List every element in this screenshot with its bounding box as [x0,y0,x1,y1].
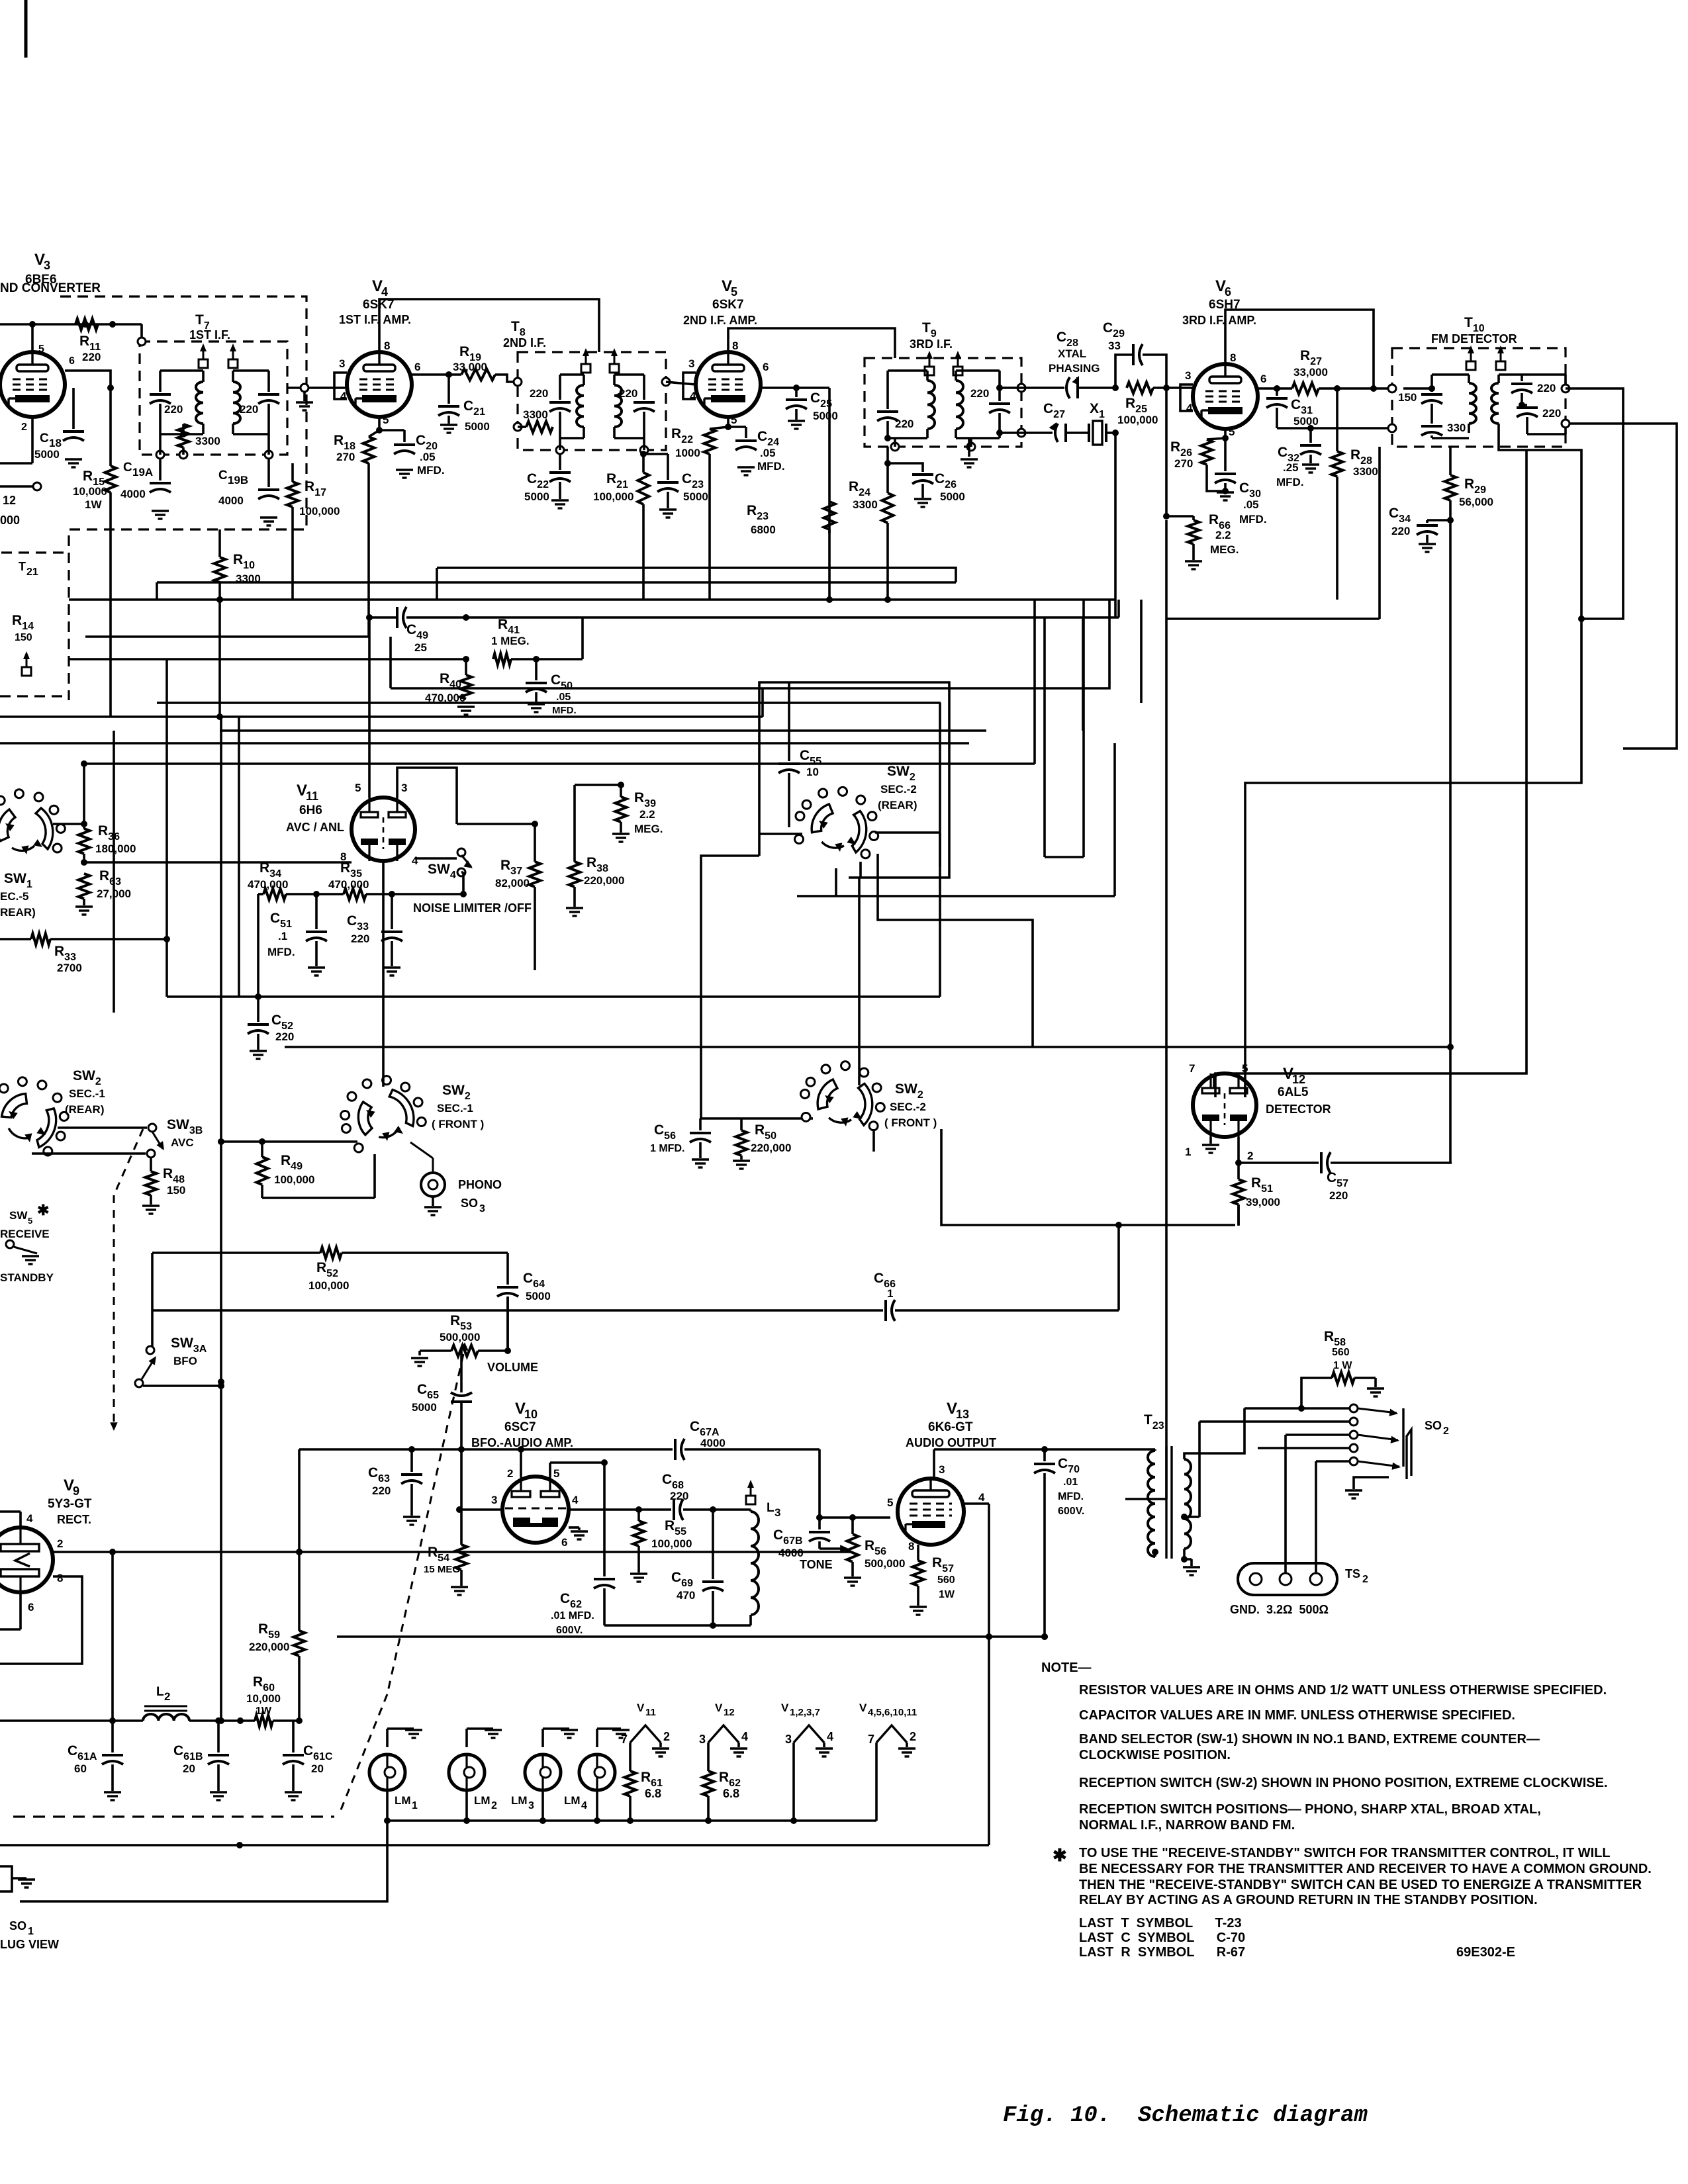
svg-text:3: 3 [528,1800,534,1811]
capacitor C70 [1034,1446,1084,1640]
resistor R39 [616,785,663,835]
label R14 [12,613,34,643]
wire dashed SW3 link [110,1129,143,1431]
svg-text:RECT.: RECT. [57,1513,91,1526]
svg-text:220: 220 [1329,1189,1348,1202]
svg-text:1: 1 [887,1287,893,1300]
terminal T10 left-bot [1388,424,1396,432]
svg-text:25: 25 [414,641,427,654]
resistor R38 [569,785,625,907]
capacitor C68 [662,1472,751,1520]
svg-text:1: 1 [412,1800,418,1811]
capacitor C22 [524,454,571,503]
svg-text:5000: 5000 [1293,415,1319,428]
ground C63 [403,1517,420,1525]
resistor R56 tone pot [847,1514,906,1576]
svg-text:RECEPTION SWITCH (SW-2) SHOWN: RECEPTION SWITCH (SW-2) SHOWN IN PHONO P… [1079,1776,1608,1790]
capacitor T9 primary [877,371,914,438]
svg-text:SEC.-1: SEC.-1 [437,1102,473,1115]
svg-text:5000: 5000 [683,490,708,503]
wire v x579 V11 [382,861,385,1087]
svg-text:3: 3 [401,782,407,794]
svg-text:7: 7 [868,1733,874,1746]
wire v x170 [109,1552,116,1724]
svg-text:330: 330 [1447,422,1466,434]
transformer T7 dashed box [140,312,287,455]
wire V11 plate3 up [397,768,457,824]
svg-text:4: 4 [581,1800,587,1811]
svg-text:100,000: 100,000 [593,490,633,503]
svg-text:C: C [218,469,228,482]
resistor R24 [849,447,894,600]
svg-text:10,000: 10,000 [73,485,107,498]
coil T8 primary [560,375,584,438]
wire bus y2473 [337,1633,1048,1640]
svg-text:39,000: 39,000 [1246,1196,1280,1208]
resistor R23 [747,502,835,600]
svg-text:SW: SW [9,1209,28,1222]
svg-text:5000: 5000 [940,490,965,503]
svg-text:TO USE THE "RECEIVE-STANDBY" S: TO USE THE "RECEIVE-STANDBY" SWITCH FOR … [1079,1846,1611,1860]
svg-text:6SC7: 6SC7 [504,1420,536,1434]
svg-text:9: 9 [73,1484,79,1498]
resistor R15 [73,388,117,529]
coil T7 secondary [233,371,269,434]
dashed box T21 fragment [0,553,64,696]
svg-text:220: 220 [240,403,258,416]
resistor T8 3300 [523,408,553,433]
svg-text:20: 20 [183,1762,195,1775]
svg-text:4: 4 [741,1730,748,1743]
node xtal top [1112,385,1170,391]
svg-text:.05: .05 [1243,498,1259,511]
wire harness h10 [220,729,986,732]
wire harness h2 [157,582,956,600]
wire V12 pin2 out [1235,1137,1319,1166]
svg-text:✱: ✱ [1053,1845,1067,1865]
wire h y1354 [797,743,1115,896]
svg-text:NORMAL I.F., NARROW BAND FM.: NORMAL I.F., NARROW BAND FM. [1079,1818,1295,1833]
inductor L3 [746,1480,780,1625]
svg-text:8: 8 [57,1572,63,1584]
svg-text:DETECTOR: DETECTOR [1266,1103,1331,1116]
svg-text:4: 4 [1186,402,1193,414]
capacitor T9 secondary [970,371,1010,438]
switch SW3A BFO [135,1336,207,1387]
capacitor T10 220b [1517,402,1561,429]
wire dashed chassis [13,1815,334,1817]
ground C61C [285,1792,302,1800]
svg-text:1ST I.F. AMP.: 1ST I.F. AMP. [339,313,411,326]
svg-text:5: 5 [731,285,737,298]
ground C25 [788,421,805,429]
wire C67B to pot [820,1545,849,1552]
wire v x361 [238,717,240,997]
capacitor C29 33 [1103,320,1166,388]
rotary switch SW2 SEC-1 front [329,1064,485,1156]
wire TS2 lead left [0,0,1,1]
terminal T9 right-top [996,384,1025,392]
capacitor T10 330 [1421,422,1469,438]
svg-text:FM DETECTOR: FM DETECTOR [1431,332,1517,345]
ground R66 [1185,561,1202,569]
svg-text:220: 220 [1391,525,1410,537]
capacitor C32 [1276,428,1321,488]
wire box right edge [988,1637,990,1845]
resistor R55 [633,1510,692,1572]
svg-text:LAST T SYMBOL T-23: LAST T SYMBOL T-23 [1079,1916,1242,1931]
svg-text:220: 220 [275,1030,294,1043]
svg-text:180,000: 180,000 [95,842,136,855]
wire V9 pin8 box [0,1576,82,1664]
svg-text:7: 7 [621,1733,628,1746]
terminal T10 left-top [1388,385,1396,392]
svg-text:470,000: 470,000 [328,878,369,891]
svg-text:3RD I.F. AMP.: 3RD I.F. AMP. [1182,314,1256,327]
svg-text:4: 4 [412,854,418,867]
wire bus into T7 [140,324,143,341]
resistor R62 [703,1743,741,1824]
capacitor T8 secondary [619,375,655,438]
svg-text:EC.-5: EC.-5 [0,890,28,903]
wire V13 pin4 out [964,1504,992,1640]
ground C34 [1419,544,1436,552]
resistor R17 [287,463,340,529]
svg-text:33,000: 33,000 [453,361,487,373]
wire harness h1 [437,568,956,582]
svg-text:RELAY BY ACTING AS A GROUND RE: RELAY BY ACTING AS A GROUND RETURN IN TH… [1079,1893,1538,1907]
wire v x172 [113,731,115,1013]
ground C22 [551,500,569,508]
svg-text:MFD.: MFD. [417,464,445,477]
svg-text:220: 220 [895,418,914,430]
svg-text:6.8: 6.8 [723,1787,739,1800]
wire L3 bottom loop [604,1622,751,1629]
svg-text:V: V [715,1702,723,1714]
svg-text:2.2: 2.2 [639,808,655,821]
svg-text:12: 12 [3,494,16,507]
svg-text:5: 5 [38,343,44,355]
svg-text:NOTE—: NOTE— [1041,1661,1092,1675]
capacitor C24 [725,424,785,473]
label TONE [800,1558,833,1571]
svg-text:5000: 5000 [813,410,838,422]
ground C61A [104,1792,121,1800]
svg-text:4: 4 [827,1730,833,1743]
ground C32 [1302,465,1319,473]
wire V4 plate to T8 [379,299,599,352]
wire V10 plate2 [518,1446,524,1477]
svg-text:5000: 5000 [34,448,60,461]
wire v x1685 [1114,600,1117,617]
wire volume dashed link [339,1354,463,1815]
terminal T8 left-bot [514,423,526,431]
wire V6 plate [1225,310,1374,388]
svg-text:220: 220 [351,933,369,945]
resistor R49 [257,1138,315,1198]
resistor R59 [249,1549,305,1724]
terminal strip TS2 [1230,1563,1368,1616]
ground C50 [528,704,545,712]
wire h y1295 [1045,600,1084,857]
ground R39 [612,834,630,842]
svg-text:5: 5 [1229,426,1235,438]
svg-text:5: 5 [731,414,737,426]
svg-text:CLOCKWISE POSITION.: CLOCKWISE POSITION. [1079,1748,1231,1762]
registration mark [24,0,28,58]
capacitor T10 150 [1398,388,1442,424]
wire C66 line [152,1222,1122,1321]
wire R52 left drop [151,1253,154,1348]
svg-text:MFD.: MFD. [1239,513,1267,525]
svg-text:MFD.: MFD. [552,705,577,716]
terminal T7 top [138,338,146,345]
svg-text:150: 150 [15,632,32,643]
heater V4561011 [859,1702,917,1821]
svg-text:CAPACITOR VALUES ARE IN MMF. U: CAPACITOR VALUES ARE IN MMF. UNLESS OTHE… [1079,1708,1515,1723]
capacitor C28 xtal phasing [1021,330,1115,398]
svg-text:C: C [123,461,132,475]
terminal T8 bot-left [556,438,564,454]
terminal T8 left-top [514,378,522,386]
svg-text:TONE: TONE [800,1558,833,1571]
svg-text:SEC.-1: SEC.-1 [69,1087,105,1100]
switch SW3B AVC [152,1117,203,1150]
wire V6 pin6 out [1258,387,1292,390]
svg-text:3: 3 [339,357,345,370]
svg-text:4: 4 [690,390,696,402]
svg-text:150: 150 [1398,391,1417,404]
svg-text:10: 10 [524,1408,538,1421]
svg-text:SO: SO [1425,1419,1442,1432]
resistor R41 [491,617,583,665]
svg-text:5: 5 [887,1496,893,1509]
svg-text:6800: 6800 [751,523,776,536]
slug T7 primary [199,343,208,368]
svg-text:PHASING: PHASING [1049,362,1100,375]
wire V5 pin6 out [761,385,829,391]
resistor R57 [913,1545,955,1606]
svg-text:100,000: 100,000 [308,1279,349,1292]
connector SO1 stub [0,1866,35,1891]
wire V5 screen drop [828,388,831,533]
wire sw2r row2 [32,1150,155,1158]
wire v x334 power [218,1637,224,1724]
resistor R58 [1301,1373,1384,1409]
svg-text:BE NECESSARY FOR THE TRANSMITT: BE NECESSARY FOR THE TRANSMITTER AND REC… [1079,1862,1652,1876]
svg-text:220: 220 [164,403,183,416]
svg-text:470: 470 [677,1589,695,1602]
svg-text:20: 20 [311,1762,324,1775]
wire T23 sec top [1184,1408,1244,1459]
svg-text:3RD I.F.: 3RD I.F. [910,338,953,351]
svg-text:560: 560 [937,1574,955,1586]
jack PHONO SO3 [410,1142,445,1197]
svg-text:1: 1 [28,1926,34,1937]
svg-text:5: 5 [1242,1062,1248,1075]
svg-text:MEG.: MEG. [1210,543,1239,556]
svg-text:REAR): REAR) [0,906,36,919]
capacitor C18 [34,388,84,461]
crystal X1 [1082,401,1115,445]
svg-text:3: 3 [688,357,694,370]
svg-text:8: 8 [908,1540,914,1553]
resistor R35 [286,860,467,900]
resistor R26 [1170,429,1229,491]
svg-text:6: 6 [414,361,420,373]
svg-text:220: 220 [82,351,101,363]
capacitor C55 [778,682,821,802]
svg-text:LM: LM [395,1794,411,1807]
svg-text:.01: .01 [1063,1477,1078,1488]
svg-text:5: 5 [28,1216,32,1226]
resistor R25 [1117,383,1193,427]
capacitor C33 [347,894,402,966]
wire T10 primary btm drop [1166,447,1380,619]
svg-text:4,5,6,10,11: 4,5,6,10,11 [868,1707,917,1718]
wire T10 sec tap down [1499,434,1585,622]
capacitor C50 [526,659,577,716]
ground R48 [142,1206,160,1214]
coil T9 secondary [956,371,1000,438]
ground R40 [457,707,475,715]
label SO1 [0,1919,59,1951]
svg-text:V: V [637,1702,645,1714]
wire v x2389-1183 [1245,619,1581,1097]
resistor R48 [146,1158,186,1205]
svg-text:5: 5 [383,414,389,426]
wire B+ top loop [0,0,1,1]
ground C51 [308,968,325,976]
resistor R53 volume pot [411,1313,538,1374]
wire V13 plate3 [934,1449,1155,1479]
capacitor C61A [68,1721,123,1791]
svg-text:C: C [40,432,49,445]
svg-text:SEC.-2: SEC.-2 [890,1101,926,1113]
wire SW4 feed [457,823,535,825]
svg-text:Fig. 10. Schematic diagram: Fig. 10. Schematic diagram [1003,2103,1368,2128]
svg-text:VOLUME: VOLUME [487,1361,538,1374]
svg-text:220,000: 220,000 [584,874,624,887]
svg-text:STANDBY: STANDBY [0,1271,54,1284]
svg-text:1000: 1000 [675,447,700,459]
svg-text:5000: 5000 [412,1401,437,1414]
svg-text:220: 220 [670,1490,688,1502]
rotary switch SW2 SEC-1 rear [0,1062,105,1161]
svg-text:LM: LM [474,1794,491,1807]
switch SW4 [415,848,473,881]
capacitor T8 primary [530,375,571,438]
svg-text:6: 6 [69,355,75,367]
terminal T7 bottom-mid [179,447,187,459]
ground R55 [630,1574,647,1582]
svg-text:L: L [156,1685,164,1699]
wire v x252 [165,659,168,997]
wire L3 tap [0,0,1,1]
wire V9 plate4 top [0,1512,21,1527]
wire V10 grid row [456,1506,502,1513]
capacitor C69 [671,1510,724,1625]
slug T8 primary [581,348,590,373]
label PHONO SO3 [458,1178,502,1214]
svg-text:3300: 3300 [853,498,878,511]
svg-text:3: 3 [774,1506,780,1519]
wire SW2 sec2 wiring [701,854,1033,1118]
label C67A value [700,1437,726,1449]
label R52 [308,1260,349,1292]
svg-text:10: 10 [806,766,819,778]
svg-text:5000: 5000 [524,490,549,503]
slug T10 primary [1466,345,1476,370]
wire SW2f2 enclosure [941,1129,1235,1225]
terminal T8 right-top [662,378,670,386]
ground R56 [844,1578,861,1586]
svg-text:2: 2 [663,1730,670,1743]
coil T8 secondary [614,375,644,438]
wire R51 bottom [1237,1205,1240,1225]
wire B+ riser x452 [298,1449,301,1552]
wire SO2 ground [1345,1477,1389,1498]
svg-text:2: 2 [164,1690,170,1703]
svg-text:3: 3 [44,259,50,272]
svg-text:220: 220 [619,387,637,400]
wire power bus y2788 [0,1842,989,1848]
inductor L2 [0,1714,220,1721]
svg-text:1 MFD.: 1 MFD. [650,1143,684,1154]
svg-text:5000: 5000 [465,420,490,433]
wire T23 sec tap [1181,1422,1199,1520]
svg-text:27,000: 27,000 [97,887,131,900]
svg-text:T: T [19,560,26,573]
label R58 [1324,1329,1352,1371]
resistor R50 [736,1118,792,1160]
resistor R40 [425,659,472,704]
transformer T8 dashed box [503,319,666,450]
wire v x332 mid [218,600,221,717]
resistor T7 3300 [178,424,220,447]
coil T7 primary [160,371,203,434]
label noise limiter [413,901,532,915]
rotary switch SW1 SEC-5 [0,790,65,919]
wire C31 to T10 [1277,425,1392,432]
svg-text:60: 60 [74,1762,87,1775]
svg-text:2ND I.F.: 2ND I.F. [503,336,546,349]
svg-text:2ND I.F. AMP.: 2ND I.F. AMP. [683,314,757,327]
resistor R34 [248,860,288,900]
wire V3 plate to B+ bus [29,321,36,352]
svg-text:6AL5: 6AL5 [1278,1085,1309,1099]
ground C23 [659,510,677,518]
wire y2190 bus [299,1446,673,1453]
svg-text:LAST R SYMBOL R-67: LAST R SYMBOL R-67 [1079,1945,1245,1960]
resistor R10 [214,529,261,603]
label T21 [19,560,38,578]
resistor R60 body [220,1715,299,1727]
svg-text:MFD.: MFD. [1276,476,1304,488]
svg-text:4: 4 [26,1512,33,1525]
wire harness h8 [157,702,941,704]
tube V13 6K6-GT [887,1400,996,1553]
ground C18 [65,459,82,467]
svg-text:1: 1 [1185,1146,1191,1158]
svg-text:THEN THE "RECEIVE-STANDBY" SWI: THEN THE "RECEIVE-STANDBY" SWITCH CAN BE… [1079,1878,1642,1892]
svg-text:220: 220 [530,387,548,400]
ground C20 [396,470,413,478]
tube V4 6SK7 1st IF amp [339,277,420,426]
svg-text:AVC: AVC [171,1136,194,1149]
capacitor C34 [1389,506,1438,543]
wire R49 top row [218,1138,357,1145]
